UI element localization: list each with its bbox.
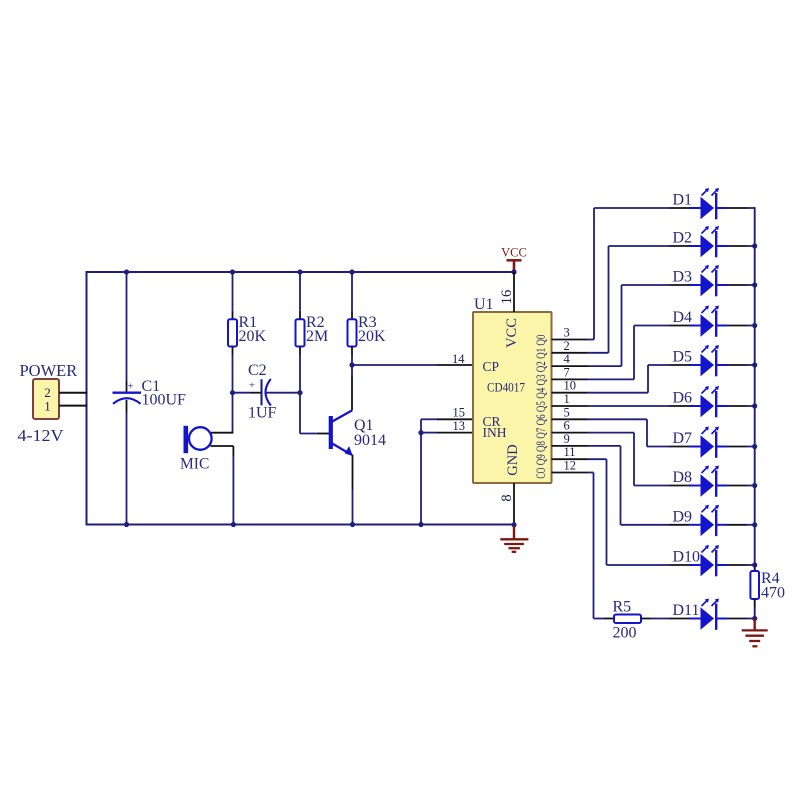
svg-text:6: 6 xyxy=(564,419,570,433)
wire U1 pin 7 net D4 xyxy=(552,378,588,380)
resistor R5 xyxy=(614,615,641,624)
svg-text:MIC: MIC xyxy=(180,456,209,473)
capacitor C2 xyxy=(249,379,271,406)
wire D1 cathode xyxy=(727,207,747,209)
svg-text:1: 1 xyxy=(44,399,51,414)
wire C2 right xyxy=(266,392,300,394)
wire U1 pin 9 net D9 xyxy=(552,445,588,447)
svg-text:Q5: Q5 xyxy=(534,401,548,412)
LED D4 xyxy=(689,306,727,337)
wire R5 to D11 xyxy=(641,618,651,620)
svg-text:10: 10 xyxy=(564,379,577,393)
node GND rail xyxy=(511,522,516,527)
wire U1 pin 5 net D7 xyxy=(552,418,588,420)
node INH rail xyxy=(418,522,423,527)
svg-text:9: 9 xyxy=(564,432,570,446)
node cathode rail xyxy=(752,243,757,248)
svg-text:D6: D6 xyxy=(673,390,693,407)
wire LED cathode rail xyxy=(754,207,756,563)
svg-text:Q9: Q9 xyxy=(534,454,548,465)
svg-text:VCC: VCC xyxy=(504,318,520,348)
node R1 top rail xyxy=(230,269,235,274)
svg-text:D1: D1 xyxy=(673,192,693,209)
svg-text:CO: CO xyxy=(534,468,548,479)
svg-text:Q7: Q7 xyxy=(534,428,548,439)
svg-text:VCC: VCC xyxy=(501,246,527,260)
wire INH pin 13 xyxy=(421,432,437,434)
wire U1 pin 11 net D10 xyxy=(552,458,588,460)
svg-text:D9: D9 xyxy=(673,508,693,525)
wire to CP pin 14 xyxy=(352,364,437,366)
svg-text:16: 16 xyxy=(499,290,515,305)
svg-text:D3: D3 xyxy=(673,269,693,286)
wire D6 cathode xyxy=(727,405,747,407)
svg-text:INH: INH xyxy=(483,425,507,440)
wire D9 cathode xyxy=(727,524,747,526)
wire R3 bottom xyxy=(351,347,353,356)
wire R2 bottom to Q1 base xyxy=(299,347,301,356)
node C1 bottom xyxy=(124,522,129,527)
wire D2 cathode xyxy=(727,245,747,247)
svg-text:200: 200 xyxy=(613,625,637,642)
wire R1 bottom xyxy=(232,347,234,356)
svg-text:7: 7 xyxy=(564,365,570,379)
ground under U1 xyxy=(500,526,528,552)
wire CR INH link xyxy=(420,419,422,432)
node cathode rail xyxy=(752,562,757,567)
svg-text:4: 4 xyxy=(564,352,571,366)
wire U1 pin 4 net D3 xyxy=(552,365,588,367)
svg-text:13: 13 xyxy=(453,419,466,433)
wire U1 pin 3 net D1 xyxy=(552,339,588,341)
node R1 C2 junction xyxy=(230,390,235,395)
node C1 top xyxy=(124,269,129,274)
wire D8 cathode xyxy=(727,485,747,487)
wire CR pin 15 xyxy=(421,418,437,420)
svg-text:CD4017: CD4017 xyxy=(487,380,525,395)
svg-text:U1: U1 xyxy=(474,296,494,313)
node cathode rail xyxy=(752,483,757,488)
wire D5 cathode xyxy=(727,364,747,366)
svg-text:Q6: Q6 xyxy=(534,414,548,425)
wire C1 bottom xyxy=(126,400,128,412)
wire R1 top xyxy=(232,272,234,311)
wire MIC bottom xyxy=(211,445,234,447)
wire bottom ground rail xyxy=(86,524,515,526)
node cathode rail xyxy=(752,362,757,367)
svg-text:D4: D4 xyxy=(673,309,693,326)
LED D7 xyxy=(689,427,727,458)
LED D10 xyxy=(689,545,727,576)
node cathode rail xyxy=(752,403,757,408)
svg-text:20K: 20K xyxy=(358,328,386,345)
LED D3 xyxy=(689,265,727,296)
svg-text:GND: GND xyxy=(505,444,521,475)
wire R4 bottom xyxy=(754,599,756,607)
node MIC ground xyxy=(231,522,236,527)
wire VCC pin 16 xyxy=(513,272,515,312)
wire junction to MIC top xyxy=(232,393,234,433)
wire top supply rail xyxy=(86,271,515,273)
svg-text:Q4: Q4 xyxy=(534,387,548,399)
resistor R1 xyxy=(228,319,237,346)
microphone MIC xyxy=(186,426,212,453)
svg-text:1UF: 1UF xyxy=(248,405,277,422)
svg-text:D11: D11 xyxy=(673,602,700,619)
svg-text:14: 14 xyxy=(452,352,465,366)
wire D11 cathode xyxy=(727,618,747,620)
svg-text:CP: CP xyxy=(483,359,500,374)
svg-text:11: 11 xyxy=(564,445,576,459)
wire left rail xyxy=(86,271,88,526)
wire Q1 emitter to rail xyxy=(352,455,354,490)
svg-text:Q8: Q8 xyxy=(534,441,548,452)
node R2 top rail xyxy=(297,269,302,274)
svg-text:D8: D8 xyxy=(673,469,693,486)
wire GND pin 8 xyxy=(513,483,515,527)
svg-text:15: 15 xyxy=(453,406,466,420)
node R3 top rail xyxy=(349,269,354,274)
svg-text:470: 470 xyxy=(761,585,785,602)
connector J1 POWER xyxy=(33,379,59,419)
svg-text:4-12V: 4-12V xyxy=(18,426,64,445)
svg-text:8: 8 xyxy=(499,494,515,501)
node VCC rail xyxy=(511,269,516,274)
wire C1 top xyxy=(126,272,128,381)
svg-text:1: 1 xyxy=(564,392,570,406)
wire R2 top xyxy=(299,272,301,311)
resistor R4 xyxy=(750,571,759,599)
wire junction to Q1 collector xyxy=(351,365,353,375)
ground right xyxy=(742,619,768,647)
wire connector pin 1 xyxy=(59,405,88,407)
wire D10 cathode xyxy=(727,564,747,566)
svg-text:9014: 9014 xyxy=(354,432,386,449)
svg-text:+: + xyxy=(249,381,255,392)
wire D3 cathode xyxy=(727,284,747,286)
svg-text:D10: D10 xyxy=(673,549,701,566)
svg-text:2: 2 xyxy=(564,339,570,353)
LED D5 xyxy=(689,345,727,376)
wire C2 left xyxy=(233,392,251,394)
node cathode rail xyxy=(752,444,757,449)
svg-text:Q2: Q2 xyxy=(534,361,548,372)
LED D11 xyxy=(689,599,727,630)
svg-text:100UF: 100UF xyxy=(142,392,187,409)
svg-text:POWER: POWER xyxy=(20,361,78,380)
svg-text:+: + xyxy=(128,382,134,393)
svg-text:D2: D2 xyxy=(673,230,693,247)
node cathode rail xyxy=(752,522,757,527)
wire R3 top xyxy=(351,272,353,311)
LED D9 xyxy=(689,505,727,536)
resistor R3 xyxy=(348,319,357,346)
svg-text:2M: 2M xyxy=(306,328,328,345)
wire connector pin 2 xyxy=(59,392,88,394)
node cathode rail xyxy=(752,282,757,287)
svg-text:20K: 20K xyxy=(239,328,267,345)
transistor Q1 xyxy=(331,410,353,456)
wire U1 pin 10 net D5 xyxy=(552,392,588,394)
node INH junction xyxy=(418,430,423,435)
resistor R2 xyxy=(296,319,305,346)
svg-text:D7: D7 xyxy=(673,430,693,447)
capacitor C1 xyxy=(113,382,142,404)
wire D7 cathode xyxy=(727,446,747,448)
node Q1 emitter rail xyxy=(350,522,355,527)
svg-text:3: 3 xyxy=(564,326,570,340)
wire U1 pin 12 net D11 xyxy=(552,472,588,474)
svg-text:D5: D5 xyxy=(673,349,693,366)
wire U1 pin 2 net D2 xyxy=(552,352,588,354)
svg-text:12: 12 xyxy=(564,459,577,473)
op-amp U1 CD4017 body xyxy=(473,312,552,483)
LED D1 xyxy=(689,188,727,219)
svg-text:Q3: Q3 xyxy=(534,375,548,386)
node CP junction xyxy=(349,362,354,367)
LED D2 xyxy=(689,226,727,257)
power VCC xyxy=(501,246,527,273)
svg-text:R5: R5 xyxy=(613,599,632,616)
wire U1 pin 6 net D8 xyxy=(552,432,588,434)
node R2 C2 junction xyxy=(297,390,302,395)
svg-text:5: 5 xyxy=(564,405,570,419)
wire U1 pin 1 net D6 xyxy=(552,405,588,407)
node R4 ground junction xyxy=(752,616,757,621)
wire INH to ground rail xyxy=(420,433,422,525)
LED D6 xyxy=(689,386,727,417)
svg-text:Q0: Q0 xyxy=(534,335,548,346)
svg-text:Q1: Q1 xyxy=(534,348,548,359)
svg-text:C2: C2 xyxy=(248,362,267,379)
LED D8 xyxy=(689,466,727,497)
wire D4 cathode xyxy=(727,325,747,327)
node cathode rail xyxy=(752,323,757,328)
